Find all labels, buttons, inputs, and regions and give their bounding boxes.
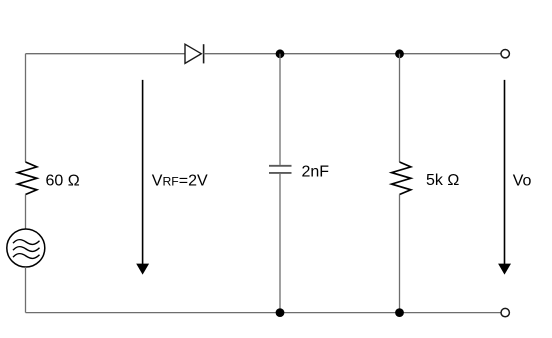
svg-text:Vo: Vo (513, 173, 532, 190)
arrow VRF (downward voltage arrow) (136, 80, 149, 275)
arrow Vo (downward output voltage arrow) (498, 80, 511, 275)
wire 5k branch bottom (399, 195, 401, 313)
wire capacitor branch bottom (279, 174, 281, 313)
wire node B to top output terminal (400, 53, 501, 55)
wire left branch vertical top (down to 60 ohm resistor) (25, 54, 27, 162)
svg-text:2nF: 2nF (302, 163, 330, 180)
node A (top junction dot, capacitor branch) (276, 49, 285, 58)
wire diode cathode to node A (204, 53, 280, 55)
label Vo (513, 173, 532, 190)
label 60 ohm (46, 173, 80, 190)
svg-text:5k Ω: 5k Ω (426, 172, 459, 189)
label VRF=2V (152, 173, 208, 190)
diode D1 (185, 44, 204, 63)
node B (top junction dot, 5k branch) (395, 49, 404, 58)
wire top-left horizontal from source branch to diode anode (26, 53, 186, 55)
resistor R1 60 ohm zigzag (18, 162, 37, 195)
node C (bottom junction dot, capacitor branch) (276, 308, 285, 317)
svg-text:60 Ω: 60 Ω (46, 173, 80, 190)
capacitor C1 2nF plates (269, 166, 292, 173)
wire node A to node B (280, 53, 400, 55)
wire bottom rail (26, 312, 501, 314)
wire 5k branch top (399, 54, 401, 162)
node D (bottom junction dot, 5k branch) (395, 308, 404, 317)
resistor R2 5k zigzag (392, 162, 411, 195)
svg-text:VRF=2V: VRF=2V (152, 173, 208, 190)
label 2nF (302, 163, 330, 180)
terminal bottom-right (open circle, Vo -) (501, 308, 509, 316)
wire resistor R1 to AC source (25, 195, 27, 230)
wire AC source to bottom rail (25, 267, 27, 313)
wire capacitor branch top (279, 54, 281, 165)
terminal top-right (open circle, Vo +) (501, 50, 509, 58)
AC source V1 (circle with sine waves) (7, 229, 45, 267)
label 5k ohm (426, 172, 459, 189)
